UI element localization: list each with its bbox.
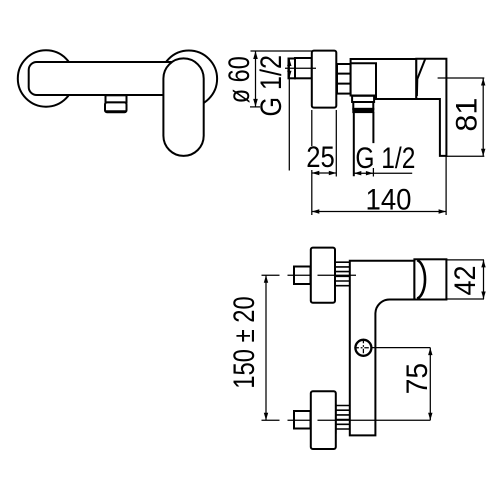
ext right [445,156,447,215]
dim line + shelf [354,172,412,174]
handle knob capsule [163,58,203,155]
top inlet threads [335,261,350,289]
arrow down [264,413,268,421]
dim line with overshoot [288,59,290,171]
arrow down [253,99,258,107]
dim line [312,172,337,174]
outlet collar [352,96,374,102]
ext line top [251,50,313,52]
top inlet nut [294,267,311,285]
svg-text:75: 75 [401,363,434,395]
top inlet flange [311,248,335,303]
wall flange (25 wide) [312,51,337,108]
outlet ring [353,102,373,109]
svg-text:140: 140 [366,184,412,217]
arrow right [366,171,374,175]
cartridge block inner [351,63,376,95]
arrow left [354,171,362,175]
top inlet centerline [262,274,357,276]
mixer body horizontal [29,62,179,95]
svg-text:G 1/2: G 1/2 [355,142,415,175]
outlet tube G1/2 [354,112,374,176]
bottom inlet nut [294,411,311,429]
ext bottom [445,155,484,157]
wall flange circle left [18,50,74,106]
nipple centerline [285,67,316,69]
dim line [483,260,485,299]
ext top [438,77,485,79]
svg-text:81: 81 [450,98,483,132]
handle slant line [417,59,425,96]
dim line [482,78,484,156]
svg-text:ø 60: ø 60 [223,56,256,103]
svg-text:150 ± 20: 150 ± 20 [228,296,261,389]
handle top view [416,59,446,156]
hex nut flats [337,74,351,84]
arrow down [428,413,432,421]
arrow up [481,78,485,86]
arrow left [312,171,320,175]
body L-shape [350,261,415,436]
dim line [429,348,431,421]
arrow right [439,209,447,213]
main body [351,59,417,99]
bottom inlet flange [311,391,336,449]
label 25 background [307,146,336,170]
dim line [255,51,257,107]
screw head [354,339,372,357]
handle block [414,259,446,299]
arrow down [481,292,485,300]
ext right stub [372,168,374,177]
arrow down [481,149,485,157]
ext left (shared with 140) [311,110,313,215]
svg-text:G 1/2: G 1/2 [255,55,288,117]
dim line [312,211,446,213]
ext tick bottom [250,106,260,108]
hex nut [337,64,351,94]
ext top [446,259,484,261]
shower outlet under body [105,95,127,112]
dim line [265,275,267,420]
arrow up [481,260,485,268]
arrow up [253,51,258,59]
wall flange circle right [161,51,218,108]
svg-text:25: 25 [306,141,335,174]
bottom inlet centerline [262,419,431,421]
arrow up [287,59,291,67]
outlet gasket (black band) [353,109,373,112]
arrow down [287,71,291,79]
ext bottom [447,298,484,300]
handle dome arc [417,260,425,298]
ext from screw center [371,347,430,349]
bottom inlet threads [336,404,350,433]
arrow up [264,275,268,283]
svg-text:42: 42 [449,266,482,296]
arrow up [428,348,432,356]
inlet nipple [295,58,312,78]
outlet bottom thick edge [106,110,126,113]
ext right [335,110,337,177]
arrow right [329,171,337,175]
inlet washer [289,59,296,79]
arrow left [312,209,320,213]
